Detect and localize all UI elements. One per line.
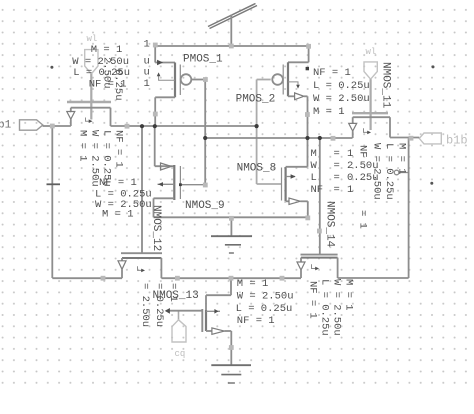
svg-text:W = 2.50u: W = 2.50u — [331, 279, 343, 336]
svg-text:M: M — [311, 148, 317, 160]
svg-text:u: u — [144, 67, 150, 79]
svg-text:1: 1 — [144, 78, 150, 90]
svg-text:M = 1: M = 1 — [102, 209, 134, 221]
svg-text:cq: cq — [175, 349, 186, 359]
svg-text:L: L — [311, 172, 317, 184]
svg-text:2.50u: 2.50u — [101, 57, 113, 89]
svg-text:NF = 1: NF = 1 — [313, 67, 351, 79]
svg-text:L = 0.25u: L = 0.25u — [383, 143, 395, 200]
svg-text:NF = 1: NF = 1 — [307, 281, 319, 319]
svg-text:W = 2.50u: W = 2.50u — [313, 93, 370, 105]
svg-text:=: = — [334, 160, 340, 172]
svg-text:NF: NF — [311, 184, 324, 196]
svg-text:= 0.25u: = 0.25u — [153, 283, 165, 327]
svg-text:M = 1: M = 1 — [313, 106, 345, 118]
svg-text:PMOS_1: PMOS_1 — [183, 54, 223, 66]
svg-text:1: 1 — [347, 184, 353, 196]
svg-text:M = 1: M = 1 — [91, 44, 123, 56]
svg-text:= 1: = 1 — [167, 283, 179, 302]
svg-text:= 2.50u: = 2.50u — [139, 283, 151, 327]
svg-text:L = 0.25u: L = 0.25u — [319, 279, 331, 336]
svg-text:W = 2.50u: W = 2.50u — [371, 143, 383, 200]
svg-text:=: = — [334, 148, 340, 160]
svg-text:wl: wl — [366, 47, 377, 57]
svg-text:u: u — [144, 56, 150, 68]
svg-text:b1: b1 — [0, 120, 12, 132]
svg-text:1: 1 — [144, 39, 150, 51]
svg-text:M = 1: M = 1 — [237, 278, 269, 290]
svg-text:NMOS_14: NMOS_14 — [324, 201, 336, 248]
svg-text:M = 1: M = 1 — [77, 130, 89, 162]
svg-text:NF = 1: NF = 1 — [113, 130, 125, 168]
svg-text:NMOS_12: NMOS_12 — [150, 205, 162, 251]
svg-text:= 1: = 1 — [357, 210, 369, 229]
svg-text:L = 0.25u: L = 0.25u — [236, 303, 293, 315]
svg-text:0.25u: 0.25u — [112, 69, 124, 101]
svg-text:wl: wl — [87, 34, 98, 44]
svg-text:M = 1: M = 1 — [396, 143, 408, 175]
svg-text:b1b: b1b — [446, 134, 468, 148]
svg-text:W = 2.50u: W = 2.50u — [237, 291, 294, 303]
svg-text:W: W — [311, 160, 318, 172]
svg-text:NMOS_11: NMOS_11 — [380, 62, 392, 109]
svg-text:NMOS_8: NMOS_8 — [237, 163, 277, 175]
svg-text:M = 1: M = 1 — [343, 279, 355, 311]
svg-text:=: = — [334, 172, 340, 184]
svg-text:1: 1 — [347, 148, 353, 160]
svg-text:PMOS_2: PMOS_2 — [236, 94, 276, 106]
svg-text:L = 0.25u: L = 0.25u — [313, 80, 370, 92]
svg-text:=: = — [334, 184, 340, 196]
svg-text:NMOS_9: NMOS_9 — [185, 200, 225, 212]
svg-text:NF: NF — [357, 145, 369, 158]
svg-text:NF = 1: NF = 1 — [237, 315, 275, 327]
